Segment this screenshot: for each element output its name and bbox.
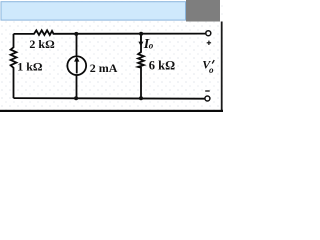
svg-text:2 kΩ: 2 kΩ xyxy=(29,37,55,51)
svg-text:1 kΩ: 1 kΩ xyxy=(17,60,43,74)
svg-text:o: o xyxy=(149,41,154,51)
svg-text:6 kΩ: 6 kΩ xyxy=(149,59,175,73)
svg-text:o: o xyxy=(209,65,214,75)
svg-text:2 mA: 2 mA xyxy=(90,61,118,75)
